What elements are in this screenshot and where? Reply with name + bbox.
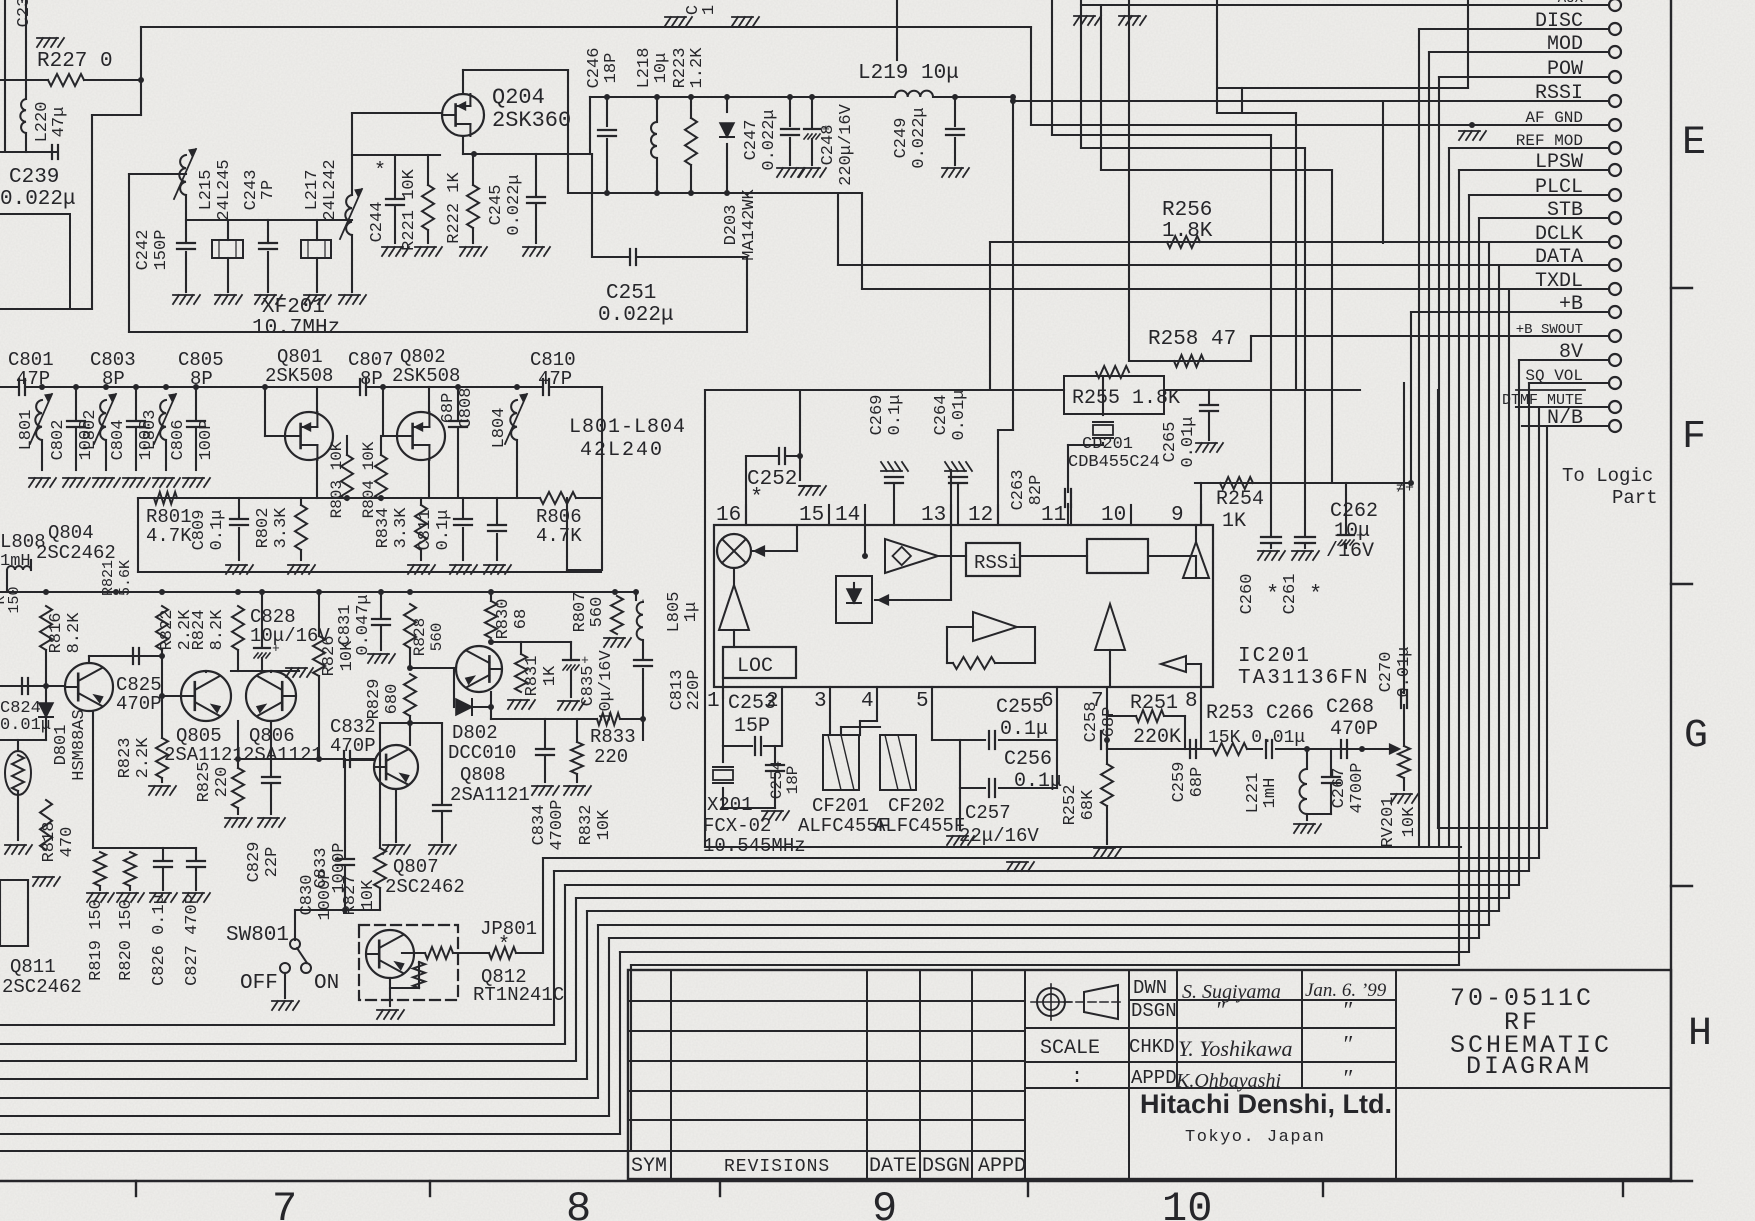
svg-text:R822: R822 [158,610,177,651]
svg-text:MA142WK: MA142WK [740,189,759,261]
svg-text:C826 0.1μ: C826 0.1μ [150,894,169,986]
svg-text:0.1μ: 0.1μ [886,395,905,436]
svg-text:REVISIONS: REVISIONS [724,1157,830,1177]
svg-text:C244: C244 [368,202,387,243]
svg-text:DATE: DATE [869,1155,917,1178]
svg-text:15P: 15P [734,715,770,738]
svg-text:ON: ON [314,972,339,995]
svg-text:10K: 10K [595,809,614,840]
svg-text:680: 680 [383,684,402,715]
svg-text:APPD: APPD [978,1155,1026,1178]
svg-text:5: 5 [916,690,929,713]
svg-text:3: 3 [814,690,827,713]
svg-text:″: ″ [1342,1032,1353,1058]
svg-text:R829: R829 [365,679,384,720]
svg-text:R832: R832 [577,805,596,846]
svg-text:R825: R825 [195,762,214,803]
svg-text:To Logic: To Logic [1562,465,1653,487]
svg-text:68: 68 [512,609,531,629]
svg-text:Q804: Q804 [48,522,94,544]
svg-text:FCX-02: FCX-02 [703,815,771,837]
svg-text:DSGN: DSGN [1131,1000,1177,1022]
svg-text:0.022μ: 0.022μ [598,304,674,327]
svg-text:470: 470 [58,827,77,858]
svg-text:L801-L804: L801-L804 [569,416,686,439]
svg-text:C834: C834 [530,805,549,846]
svg-text:C253: C253 [728,692,776,715]
svg-text:L219 10μ: L219 10μ [858,62,959,85]
svg-text:47P: 47P [16,368,50,390]
svg-text:C802: C802 [49,420,68,461]
svg-text:10μ: 10μ [652,53,671,84]
svg-text:4700P: 4700P [1348,762,1367,813]
svg-text:R824: R824 [190,610,209,651]
svg-text:HSM88AS: HSM88AS [70,709,89,780]
svg-text:C259: C259 [1170,762,1189,803]
svg-text:C261: C261 [1281,574,1300,615]
svg-text:24L245: 24L245 [215,159,234,220]
svg-text:C831: C831 [336,605,355,646]
svg-text:0.1μ: 0.1μ [1000,718,1048,741]
svg-text:DCC010: DCC010 [448,742,516,764]
svg-text:C269: C269 [868,395,887,436]
svg-text:C268: C268 [1326,696,1374,719]
svg-text:″: ″ [1215,998,1226,1024]
svg-text:C257: C257 [965,802,1011,824]
svg-text:68P: 68P [439,393,458,424]
svg-text:2SA1121: 2SA1121 [450,784,530,806]
svg-text:R818: R818 [40,822,59,863]
svg-text:R831: R831 [523,656,542,697]
svg-text:C811: C811 [416,510,435,551]
svg-text:82P: 82P [1027,475,1046,506]
svg-text:2SA1121: 2SA1121 [243,744,323,766]
svg-text:D802: D802 [452,722,498,744]
svg-text:C809: C809 [190,510,209,551]
svg-text:APPD: APPD [1131,1067,1177,1089]
svg-text:R823: R823 [116,738,135,779]
svg-text:D203: D203 [722,205,741,246]
svg-text:R256: R256 [1162,199,1212,222]
svg-text:C827 470P: C827 470P [183,894,202,986]
svg-text:220: 220 [594,746,628,768]
svg-text:C251: C251 [606,282,656,305]
svg-text:1: 1 [700,5,719,15]
svg-text:7P: 7P [259,180,278,200]
svg-text:C239: C239 [9,166,59,189]
svg-text:E: E [1682,121,1706,166]
svg-text:TA31136FN: TA31136FN [1238,667,1369,690]
svg-text:10K: 10K [1400,806,1419,837]
svg-text:24L242: 24L242 [321,159,340,220]
svg-text:R828: R828 [411,618,429,656]
svg-text:L803: L803 [141,410,160,451]
svg-text:C264: C264 [932,395,951,436]
svg-text:1K: 1K [1222,510,1246,533]
svg-text:DIAGRAM: DIAGRAM [1466,1052,1592,1081]
svg-text:C258: C258 [1082,702,1101,743]
svg-text:R221 10K: R221 10K [400,168,419,250]
svg-text:C267: C267 [1330,768,1349,809]
svg-text:4700P: 4700P [548,799,567,850]
svg-text:Q807: Q807 [393,856,439,878]
svg-text:1000P: 1000P [316,869,335,920]
svg-text:Hitachi Denshi, Ltd.: Hitachi Denshi, Ltd. [1140,1089,1392,1119]
svg-text:C245: C245 [487,185,506,226]
svg-text:C808: C808 [457,388,476,429]
svg-text:R255 1.8K: R255 1.8K [1072,387,1180,410]
svg-text:DSGN: DSGN [922,1155,970,1178]
svg-text:0.1μ: 0.1μ [434,510,453,551]
svg-text:15: 15 [799,504,824,527]
svg-text:*: * [750,485,763,510]
svg-text:220μ/16V: 220μ/16V [837,103,856,185]
svg-text:470P: 470P [116,693,162,715]
svg-text:8.2K: 8.2K [208,609,227,651]
svg-text:0.01μ: 0.01μ [1395,646,1414,697]
svg-text:RT1N241C: RT1N241C [473,984,564,1006]
svg-text:R251: R251 [1130,692,1178,715]
svg-text:*: * [1266,582,1279,607]
svg-text:150: 150 [6,586,23,613]
svg-text:R253 C266: R253 C266 [1206,702,1314,725]
svg-text:R833: R833 [590,726,636,748]
svg-text:2SK360: 2SK360 [492,108,571,133]
svg-text:LOC: LOC [737,655,773,678]
svg-text:*: * [1309,582,1322,607]
svg-text:C255: C255 [996,696,1044,719]
svg-text:Q808: Q808 [460,764,506,786]
svg-text:8P: 8P [102,368,125,390]
svg-text:0.022μ: 0.022μ [0,188,76,211]
svg-text:4.7K: 4.7K [146,525,192,547]
svg-text:470P: 470P [330,735,376,757]
svg-text:C256: C256 [1004,748,1052,771]
svg-text:C247: C247 [742,120,761,161]
svg-text:C804: C804 [109,420,128,461]
svg-text:13: 13 [921,504,946,527]
svg-text:F: F [1682,415,1706,460]
svg-text:C829: C829 [245,842,264,883]
svg-text:SCALE: SCALE [1040,1037,1100,1060]
svg-text:C835: C835 [579,666,598,707]
svg-text:″: ″ [1342,998,1353,1024]
svg-text:ALFC455F: ALFC455F [874,815,965,837]
svg-text:0.01μ: 0.01μ [950,389,969,440]
svg-text:10K: 10K [359,879,378,910]
svg-text:9: 9 [872,1185,897,1221]
svg-text:2SC2462: 2SC2462 [385,876,465,898]
svg-text:CF202: CF202 [888,795,945,817]
svg-text:10μ/16V: 10μ/16V [597,650,616,722]
svg-text:L801: L801 [17,410,36,451]
svg-text:0.01μ: 0.01μ [1179,416,1198,467]
svg-text:L215: L215 [197,170,216,211]
svg-text:1.8K: 1.8K [1162,220,1213,243]
svg-text:*: * [374,160,386,183]
svg-text:Q811: Q811 [10,956,56,978]
svg-text:Part: Part [1612,487,1658,509]
svg-text:CF201: CF201 [812,795,869,817]
svg-text:CD201: CD201 [1082,435,1133,454]
svg-text:C242: C242 [134,230,153,271]
svg-text:12: 12 [968,504,993,527]
svg-text:1K: 1K [541,665,560,686]
svg-text:8P: 8P [360,368,383,390]
svg-text:Tokyo. Japan: Tokyo. Japan [1185,1128,1325,1147]
svg-text:10: 10 [1162,1185,1212,1221]
svg-text:C270: C270 [1377,652,1396,693]
svg-text:R804 10K: R804 10K [360,441,378,518]
svg-text:L804: L804 [490,408,509,449]
svg-text:XF201: XF201 [262,296,325,319]
svg-text:8: 8 [566,1185,591,1221]
svg-text:1mH: 1mH [1261,778,1280,809]
svg-text:68P: 68P [1188,767,1207,798]
svg-text:R820 150: R820 150 [117,899,136,981]
svg-text:2SK508: 2SK508 [265,365,333,387]
svg-text:H: H [1688,1012,1712,1057]
svg-text:220: 220 [213,767,232,798]
svg-text:L808: L808 [0,531,46,553]
svg-text:47μ: 47μ [50,107,69,138]
svg-text:G: G [1684,714,1708,759]
svg-text:5.6K: 5.6K [117,560,134,596]
svg-text::: : [1071,1066,1083,1089]
svg-text:16: 16 [716,504,741,527]
svg-text:1: 1 [707,690,720,713]
svg-text:42L240: 42L240 [580,439,664,462]
svg-text:2SK508: 2SK508 [392,365,460,387]
svg-text:14: 14 [835,504,860,527]
svg-text:560: 560 [588,597,607,628]
svg-text:L217: L217 [303,170,322,211]
svg-text:0.022μ: 0.022μ [760,109,779,170]
svg-text:15K 0.01μ: 15K 0.01μ [1208,728,1305,748]
svg-text:2SC2462: 2SC2462 [2,976,82,998]
svg-text:C248: C248 [819,125,838,166]
svg-text:0.022μ: 0.022μ [910,107,929,168]
svg-text:1.2K: 1.2K [688,47,707,89]
svg-text:L802: L802 [81,410,100,451]
svg-text:68K: 68K [1079,789,1098,820]
svg-text:8P: 8P [190,368,213,390]
svg-text:SW801: SW801 [226,924,289,947]
svg-text:10.7MHz: 10.7MHz [252,317,340,340]
svg-text:3.3K: 3.3K [272,507,291,549]
svg-text:4: 4 [861,690,874,713]
svg-text:220K: 220K [1133,726,1181,749]
svg-text:D801: D801 [52,725,71,766]
svg-text:C260: C260 [1238,574,1257,615]
svg-text:0.022μ: 0.022μ [505,174,524,235]
svg-text:R834: R834 [374,508,393,549]
svg-text:3.3K: 3.3K [392,507,411,549]
svg-text:X201: X201 [707,794,753,816]
svg-text:R254: R254 [1216,488,1264,511]
svg-text:22μ/16V: 22μ/16V [959,825,1039,847]
svg-text:9: 9 [1171,504,1184,527]
svg-text:0.01μ: 0.01μ [0,716,51,735]
svg-text:DWN: DWN [1133,977,1167,999]
svg-text:CHKD: CHKD [1129,1036,1175,1058]
svg-text:R258 47: R258 47 [1148,328,1236,351]
svg-text:Q204: Q204 [492,85,545,110]
svg-text:SYM: SYM [631,1155,667,1178]
svg-text:R252: R252 [1061,785,1080,826]
svg-text:+: + [272,641,280,656]
svg-text:4.7K: 4.7K [536,525,582,547]
svg-text:18P: 18P [602,53,621,84]
svg-text:0.1μ: 0.1μ [208,510,227,551]
svg-text:7: 7 [272,1185,297,1221]
svg-text:470P: 470P [1330,718,1378,741]
svg-text:R802: R802 [254,508,273,549]
svg-text:R227 0: R227 0 [37,50,113,73]
svg-text:10: 10 [1101,504,1126,527]
svg-text:18P: 18P [784,766,802,795]
svg-text:C263: C263 [1009,470,1028,511]
svg-text:RSSi: RSSi [974,552,1020,574]
svg-text:/16V: /16V [1326,540,1374,563]
svg-text:1μ: 1μ [682,602,701,622]
svg-text:C265: C265 [1161,422,1180,463]
svg-text:0.047μ: 0.047μ [354,594,373,655]
svg-text:C249: C249 [892,118,911,159]
svg-text:100P: 100P [197,420,216,461]
svg-text:2.2K: 2.2K [134,737,153,779]
svg-text:68P: 68P [1100,707,1119,738]
svg-text:Y. Yoshikawa: Y. Yoshikawa [1178,1036,1293,1061]
svg-text:220P: 220P [685,670,704,711]
svg-text:150P: 150P [152,230,171,271]
svg-text:560: 560 [428,623,446,652]
svg-text:R803 10K: R803 10K [328,441,346,518]
svg-text:IC201: IC201 [1238,645,1311,668]
svg-text:R816: R816 [47,613,66,654]
svg-text:OFF: OFF [240,972,278,995]
svg-text:0.1μ: 0.1μ [1014,770,1062,793]
svg-text:R819 150: R819 150 [87,899,106,981]
svg-text:8.2K: 8.2K [65,612,84,654]
svg-text:8: 8 [1185,690,1198,713]
svg-text:CDB455C24: CDB455C24 [1068,453,1160,472]
svg-text:22P: 22P [263,847,282,878]
svg-text:C806: C806 [169,420,188,461]
svg-text:S. Sugiyama: S. Sugiyama [1182,981,1281,1003]
svg-text:RV201: RV201 [1379,796,1398,847]
svg-text:11: 11 [1041,504,1066,527]
svg-text:C23: C23 [15,0,34,27]
svg-text:R830: R830 [494,599,513,640]
svg-text:10.545MHz: 10.545MHz [703,835,806,857]
svg-text:R222 1K: R222 1K [445,172,464,244]
